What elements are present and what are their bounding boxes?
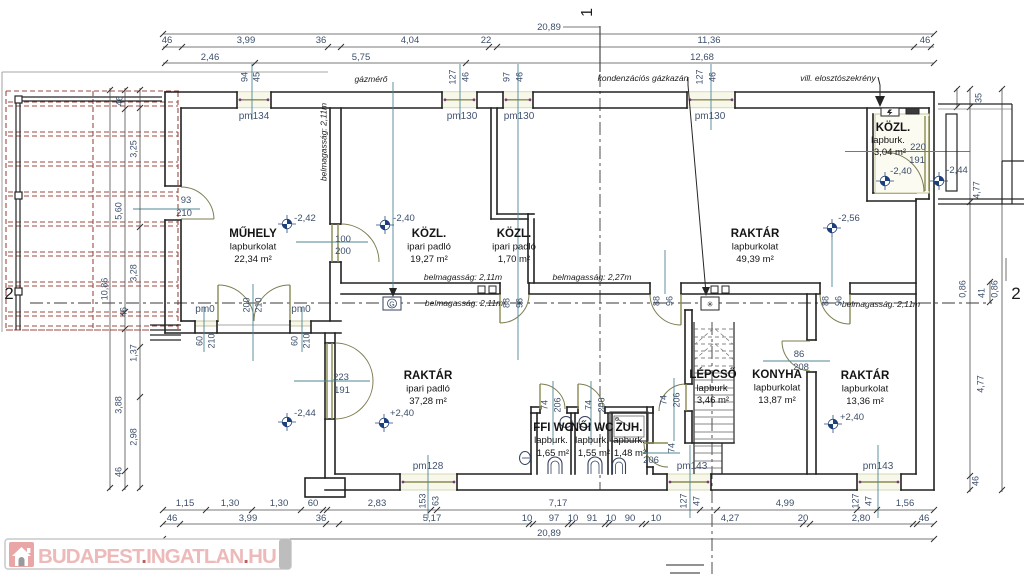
svg-text:lapburk.: lapburk. bbox=[534, 435, 568, 446]
svg-text:200: 200 bbox=[335, 246, 351, 257]
svg-text:lapburkolat: lapburkolat bbox=[754, 383, 801, 394]
svg-text:belmagasság: 2,11m: belmagasság: 2,11m bbox=[318, 103, 328, 181]
svg-text:74: 74 bbox=[583, 400, 593, 410]
svg-text:19,27 m²: 19,27 m² bbox=[410, 254, 448, 265]
svg-text:1,56: 1,56 bbox=[896, 498, 915, 509]
svg-text:pm143: pm143 bbox=[677, 461, 708, 472]
svg-text:10: 10 bbox=[606, 513, 617, 524]
svg-text:4,27: 4,27 bbox=[721, 513, 740, 524]
svg-text:46: 46 bbox=[460, 72, 470, 82]
svg-text:97: 97 bbox=[501, 72, 511, 82]
svg-text:-2,56: -2,56 bbox=[838, 213, 860, 224]
svg-text:220: 220 bbox=[910, 142, 926, 153]
svg-text:0,86: 0,86 bbox=[957, 280, 967, 298]
svg-text:2,80: 2,80 bbox=[852, 513, 871, 524]
svg-text:+2,40: +2,40 bbox=[840, 412, 864, 423]
svg-text:-2,42: -2,42 bbox=[294, 213, 316, 224]
svg-text:63: 63 bbox=[430, 496, 440, 506]
svg-text:191: 191 bbox=[909, 155, 925, 166]
svg-text:1,30: 1,30 bbox=[221, 498, 240, 509]
svg-text:90: 90 bbox=[625, 513, 636, 524]
svg-text:BUDAPEST.INGATLAN.HU: BUDAPEST.INGATLAN.HU bbox=[38, 545, 276, 568]
svg-text:ZUH.: ZUH. bbox=[616, 422, 643, 434]
svg-text:1,70 m²: 1,70 m² bbox=[498, 254, 530, 265]
svg-text:pm130: pm130 bbox=[695, 111, 726, 122]
svg-text:47: 47 bbox=[691, 496, 701, 506]
svg-text:3,88: 3,88 bbox=[113, 396, 123, 414]
svg-text:belmagasság: 2,11m: belmagasság: 2,11m bbox=[425, 298, 503, 308]
svg-text:5,75: 5,75 bbox=[352, 52, 371, 63]
svg-text:pm130: pm130 bbox=[447, 111, 478, 122]
svg-text:12,68: 12,68 bbox=[690, 52, 714, 63]
svg-text:191: 191 bbox=[334, 385, 350, 396]
svg-text:belmagasság: 2,11m: belmagasság: 2,11m bbox=[842, 299, 920, 309]
svg-text:1,55 m²: 1,55 m² bbox=[578, 448, 610, 459]
svg-text:13,36 m²: 13,36 m² bbox=[846, 396, 884, 407]
svg-text:4,04: 4,04 bbox=[401, 35, 420, 46]
svg-text:4,99: 4,99 bbox=[776, 498, 795, 509]
svg-text:47: 47 bbox=[863, 496, 873, 506]
svg-text:206: 206 bbox=[643, 455, 659, 466]
svg-text:✳: ✳ bbox=[707, 300, 714, 309]
svg-text:RAKTÁR: RAKTÁR bbox=[841, 369, 890, 382]
svg-text:pm0: pm0 bbox=[195, 304, 215, 315]
svg-text:46: 46 bbox=[167, 513, 178, 524]
svg-text:5,17: 5,17 bbox=[423, 513, 442, 524]
svg-text:pm130: pm130 bbox=[504, 111, 535, 122]
svg-text:NŐI WC: NŐI WC bbox=[571, 421, 614, 434]
svg-text:223: 223 bbox=[333, 372, 349, 383]
svg-text:RAKTÁR: RAKTÁR bbox=[731, 227, 780, 240]
svg-text:200: 200 bbox=[241, 297, 251, 312]
svg-text:46: 46 bbox=[162, 35, 173, 46]
svg-text:ipari padló: ipari padló bbox=[492, 242, 536, 253]
svg-text:3,04 m²: 3,04 m² bbox=[874, 147, 906, 158]
svg-text:1,37: 1,37 bbox=[128, 344, 138, 362]
svg-text:ipari padló: ipari padló bbox=[406, 384, 450, 395]
svg-text:127: 127 bbox=[678, 493, 688, 508]
svg-text:210: 210 bbox=[176, 208, 192, 219]
svg-text:3,99: 3,99 bbox=[237, 35, 256, 46]
svg-text:1: 1 bbox=[579, 8, 596, 17]
svg-text:1,65 m²: 1,65 m² bbox=[537, 448, 569, 459]
svg-text:13,87 m²: 13,87 m² bbox=[758, 395, 796, 406]
svg-text:60: 60 bbox=[289, 336, 299, 346]
svg-text:96: 96 bbox=[514, 298, 524, 308]
svg-text:20: 20 bbox=[798, 513, 809, 524]
svg-text:46: 46 bbox=[919, 513, 930, 524]
svg-text:G: G bbox=[389, 302, 394, 309]
svg-text:210: 210 bbox=[206, 333, 216, 348]
svg-text:93: 93 bbox=[181, 195, 192, 206]
svg-text:208: 208 bbox=[793, 362, 809, 373]
svg-text:MŰHELY: MŰHELY bbox=[229, 227, 277, 240]
svg-text:-2,44: -2,44 bbox=[294, 408, 316, 419]
svg-text:-2,40: -2,40 bbox=[393, 213, 415, 224]
svg-text:5,60: 5,60 bbox=[113, 202, 123, 220]
svg-text:7,17: 7,17 bbox=[549, 498, 568, 509]
svg-text:127: 127 bbox=[694, 69, 704, 84]
svg-text:1,30: 1,30 bbox=[270, 498, 289, 509]
svg-text:20,89: 20,89 bbox=[537, 22, 561, 33]
svg-text:46: 46 bbox=[920, 35, 931, 46]
svg-text:46: 46 bbox=[118, 307, 128, 317]
svg-text:11,36: 11,36 bbox=[697, 35, 720, 46]
svg-text:pm0: pm0 bbox=[291, 304, 311, 315]
svg-text:10,86: 10,86 bbox=[99, 278, 109, 301]
svg-text:91: 91 bbox=[587, 513, 598, 524]
svg-text:2,46: 2,46 bbox=[201, 52, 220, 63]
svg-text:lapburkolat: lapburkolat bbox=[230, 242, 277, 253]
svg-text:36: 36 bbox=[316, 513, 327, 524]
svg-text:210: 210 bbox=[253, 297, 263, 312]
svg-text:46: 46 bbox=[114, 96, 124, 106]
svg-text:pm143: pm143 bbox=[863, 461, 894, 472]
svg-text:lapburk: lapburk bbox=[696, 383, 727, 394]
svg-text:37,28 m²: 37,28 m² bbox=[409, 396, 447, 407]
svg-text:belmagasság: 2,11m: belmagasság: 2,11m bbox=[424, 272, 502, 282]
svg-text:86: 86 bbox=[794, 349, 805, 360]
svg-text:kondenzációs gázkazán: kondenzációs gázkazán bbox=[598, 73, 689, 83]
svg-text:lapburk.: lapburk. bbox=[611, 435, 645, 446]
svg-text:94: 94 bbox=[239, 72, 249, 82]
svg-text:49,39 m²: 49,39 m² bbox=[736, 254, 774, 265]
svg-text:206: 206 bbox=[671, 392, 681, 407]
svg-text:3,46 m²: 3,46 m² bbox=[697, 395, 729, 406]
svg-text:127: 127 bbox=[447, 69, 457, 84]
svg-text:3,25: 3,25 bbox=[128, 140, 138, 158]
svg-text:127: 127 bbox=[850, 493, 860, 508]
svg-text:gázmérő: gázmérő bbox=[354, 74, 387, 84]
svg-text:46: 46 bbox=[707, 72, 717, 82]
svg-text:LÉPCSŐ: LÉPCSŐ bbox=[689, 368, 736, 381]
svg-text:lapburkolat: lapburkolat bbox=[842, 384, 889, 395]
svg-text:100: 100 bbox=[335, 234, 351, 245]
svg-text:1,15: 1,15 bbox=[176, 498, 195, 509]
svg-text:+2,40: +2,40 bbox=[390, 408, 414, 419]
svg-text:lapburk.: lapburk. bbox=[575, 435, 609, 446]
svg-text:10: 10 bbox=[522, 513, 533, 524]
svg-text:60: 60 bbox=[308, 498, 319, 509]
svg-text:35: 35 bbox=[973, 93, 983, 103]
svg-text:22: 22 bbox=[481, 35, 492, 46]
svg-text:3,99: 3,99 bbox=[239, 513, 258, 524]
svg-text:60: 60 bbox=[194, 336, 204, 346]
svg-text:74: 74 bbox=[539, 400, 549, 410]
svg-text:20,89: 20,89 bbox=[537, 528, 561, 539]
svg-text:45: 45 bbox=[251, 72, 261, 82]
svg-text:pm134: pm134 bbox=[239, 111, 270, 122]
svg-text:88: 88 bbox=[820, 296, 830, 306]
svg-text:RAKTÁR: RAKTÁR bbox=[404, 369, 453, 382]
svg-text:210: 210 bbox=[301, 333, 311, 348]
svg-text:FFI WC: FFI WC bbox=[533, 422, 573, 434]
svg-text:belmagasság: 2,27m: belmagasság: 2,27m bbox=[553, 272, 632, 282]
svg-text:-2,40: -2,40 bbox=[890, 166, 912, 177]
svg-text:vill. elosztószekrény: vill. elosztószekrény bbox=[800, 73, 876, 83]
svg-text:88: 88 bbox=[651, 296, 661, 306]
svg-text:KÖZL.: KÖZL. bbox=[497, 227, 532, 240]
svg-text:97: 97 bbox=[549, 513, 560, 524]
svg-text:1,48 m²: 1,48 m² bbox=[614, 448, 646, 459]
svg-text:96: 96 bbox=[664, 296, 674, 306]
svg-text:22,34 m²: 22,34 m² bbox=[234, 254, 272, 265]
svg-text:206: 206 bbox=[596, 397, 606, 412]
svg-text:153: 153 bbox=[417, 493, 427, 508]
svg-text:74: 74 bbox=[658, 395, 668, 405]
svg-text:KÖZL.: KÖZL. bbox=[412, 227, 447, 240]
svg-text:lapburk.: lapburk. bbox=[871, 135, 905, 146]
svg-text:2,98: 2,98 bbox=[128, 428, 138, 446]
svg-text:KÖZL.: KÖZL. bbox=[876, 121, 911, 134]
svg-text:10: 10 bbox=[568, 513, 579, 524]
svg-text:2: 2 bbox=[1011, 284, 1020, 303]
svg-text:2: 2 bbox=[4, 284, 13, 303]
svg-text:lapburkolat: lapburkolat bbox=[732, 242, 779, 253]
svg-text:46: 46 bbox=[113, 467, 123, 477]
svg-text:206: 206 bbox=[552, 397, 562, 412]
svg-text:-2,44: -2,44 bbox=[946, 165, 968, 176]
svg-text:2,83: 2,83 bbox=[368, 498, 387, 509]
svg-text:3,28: 3,28 bbox=[128, 264, 138, 282]
svg-text:46: 46 bbox=[514, 72, 524, 82]
svg-text:41: 41 bbox=[976, 288, 986, 298]
svg-text:ipari padló: ipari padló bbox=[407, 242, 451, 253]
svg-text:10: 10 bbox=[651, 513, 662, 524]
svg-text:0,86: 0,86 bbox=[989, 280, 999, 298]
svg-text:46: 46 bbox=[970, 476, 980, 486]
svg-text:36: 36 bbox=[316, 35, 327, 46]
svg-text:4,77: 4,77 bbox=[971, 181, 981, 199]
svg-text:4,77: 4,77 bbox=[975, 375, 985, 393]
svg-text:74: 74 bbox=[666, 443, 676, 453]
svg-text:pm128: pm128 bbox=[413, 461, 444, 472]
